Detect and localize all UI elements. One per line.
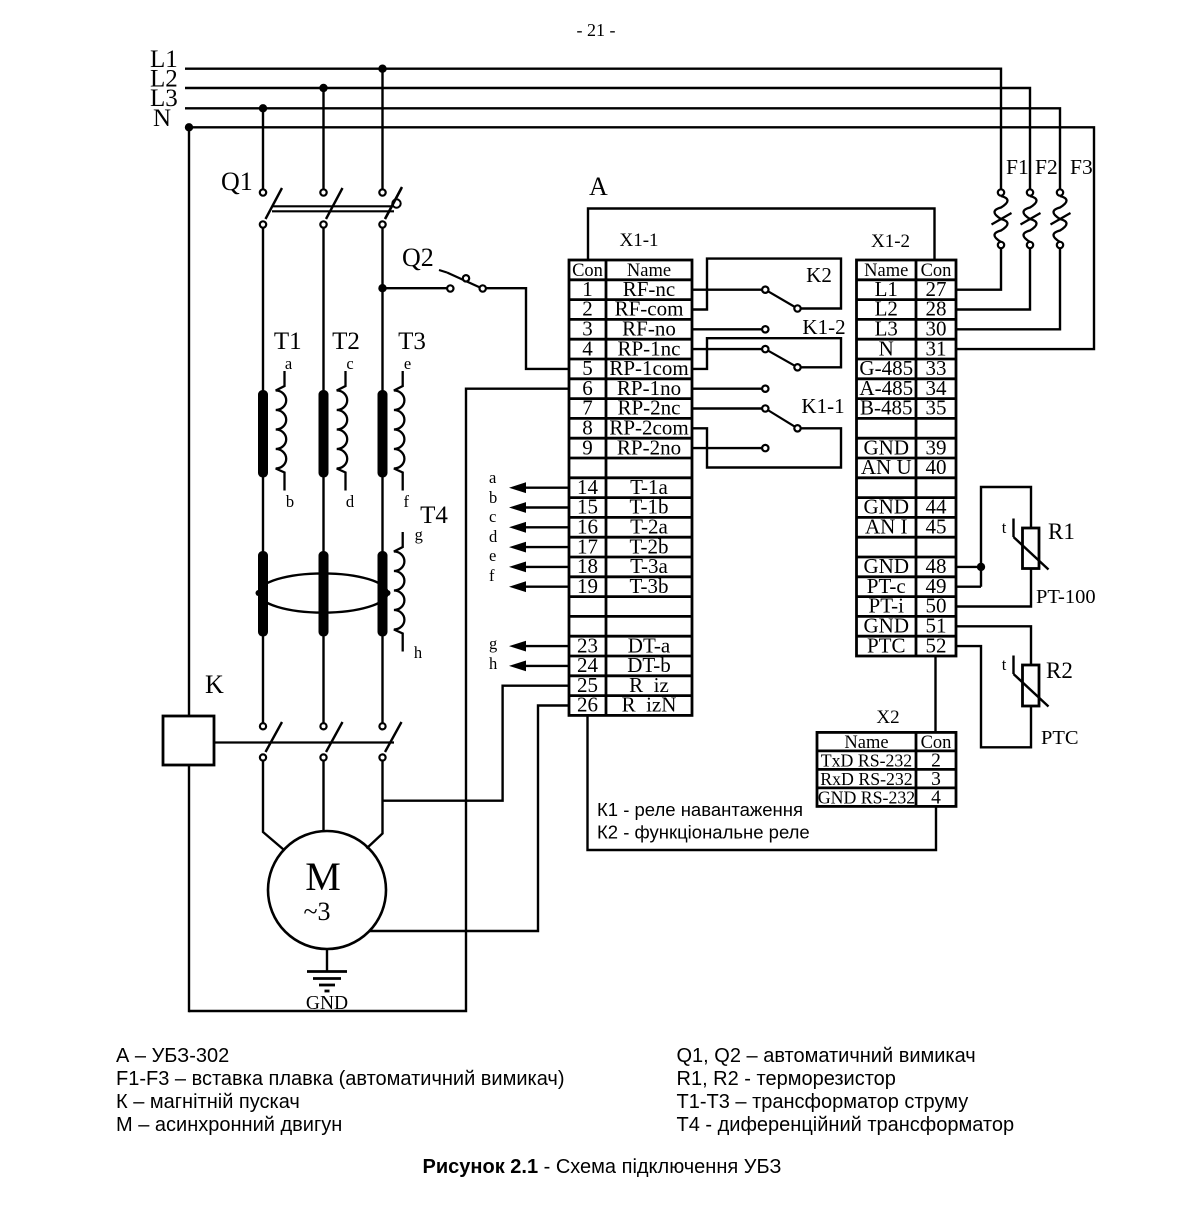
wire GND 51 to R2 top — [956, 626, 1031, 665]
svg-text:- 21 -: - 21 - — [577, 20, 616, 40]
transformer T3 primary bar — [378, 390, 388, 478]
device A outline top — [588, 209, 935, 261]
svg-text:K1-2: K1-2 — [802, 315, 845, 339]
wire N bottom run to RP-1no (pin 6) — [189, 389, 569, 1011]
arrow input e (pin row) — [524, 566, 569, 568]
junction L3 tap — [259, 104, 267, 112]
svg-text:X1-1: X1-1 — [619, 230, 658, 251]
svg-text:e: e — [404, 354, 411, 373]
svg-text:Рисунок 2.1 - Схема підключенн: Рисунок 2.1 - Схема підключення УБЗ — [423, 1156, 782, 1178]
wire F3 to terminal 30 — [956, 248, 1060, 329]
svg-text:t: t — [1002, 518, 1007, 537]
svg-text:~3: ~3 — [303, 897, 330, 926]
svg-text:T-3b: T-3b — [630, 574, 669, 598]
transformer T3 secondary coil — [394, 371, 405, 491]
wire pole3 drop — [381, 69, 383, 190]
svg-text:d: d — [346, 492, 355, 511]
svg-text:К2 - функціональне реле: К2 - функціональне реле — [597, 822, 810, 843]
arrow input f (pin row) — [524, 586, 569, 588]
transformer T2 primary bar — [319, 390, 329, 478]
svg-text:N: N — [153, 105, 171, 132]
junction L2 tap — [319, 84, 327, 92]
transformer T4 primary bars — [258, 551, 268, 637]
svg-text:52: 52 — [926, 633, 947, 657]
svg-text:Q2: Q2 — [402, 243, 434, 272]
fuse F3 — [1054, 196, 1067, 242]
svg-text:TxD RS-232: TxD RS-232 — [821, 750, 912, 770]
thermoresistor R2 — [1023, 665, 1040, 706]
svg-text:26: 26 — [577, 693, 598, 717]
transformer T4 core ellipse — [259, 573, 388, 612]
svg-text:a: a — [285, 354, 293, 373]
connector X1-2 table — [857, 260, 957, 656]
wire pin3 to K1-2 no contact — [692, 328, 762, 330]
svg-text:T1: T1 — [274, 328, 302, 355]
wire L3 rail — [185, 108, 1060, 190]
svg-text:f: f — [404, 492, 410, 511]
wire F2 to terminal 28 — [956, 248, 1030, 310]
relay contact K1-2 — [765, 349, 797, 367]
svg-text:K2: K2 — [806, 263, 832, 287]
contactor K coil box — [163, 716, 214, 765]
device A link X1-2 to X2 — [934, 656, 936, 732]
contactor K linkage — [214, 741, 394, 743]
wire pin4 to K1-2 fixed contact — [692, 348, 762, 350]
svg-text:h: h — [414, 643, 423, 662]
device A outline bottom — [588, 715, 937, 850]
wire pin1 to K2 fixed contact — [692, 289, 762, 291]
junction L1 tap — [378, 65, 386, 73]
wire pin8 to K1-1 common loop — [692, 428, 841, 467]
svg-text:b: b — [489, 488, 497, 507]
arrow input a (pin row) — [524, 487, 569, 489]
svg-text:19: 19 — [577, 574, 598, 598]
junction N drop — [185, 123, 193, 131]
svg-text:R1: R1 — [1048, 519, 1075, 544]
wire Q2 to RP-1com (pin 5) — [486, 288, 569, 369]
svg-text:35: 35 — [926, 396, 947, 420]
ground — [326, 949, 328, 972]
relay contact K1-1 — [765, 409, 797, 429]
relay contact K2 — [765, 290, 797, 309]
svg-text:K1-1: K1-1 — [801, 394, 844, 418]
svg-text:4: 4 — [931, 787, 941, 808]
svg-text:f: f — [489, 566, 495, 585]
transformer T4 secondary coil — [394, 532, 405, 652]
junction Q2 tap — [378, 284, 386, 292]
connector X2 table — [817, 732, 956, 806]
wire pole1 drop — [262, 108, 264, 190]
svg-text:X1-2: X1-2 — [871, 231, 910, 252]
svg-text:M: M — [305, 854, 341, 899]
wire N below coil — [188, 765, 190, 1012]
svg-text:Q1: Q1 — [221, 167, 253, 196]
wire R_izN net: motor to pin 26 — [369, 706, 569, 932]
arrow input c (pin row) — [524, 526, 569, 528]
fuse F2 — [1024, 196, 1037, 242]
wire Q1 outputs down through transformers — [262, 228, 264, 723]
transformer T2 secondary coil — [337, 371, 348, 491]
svg-text:F2: F2 — [1035, 155, 1058, 179]
arrow input d (pin row) — [524, 546, 569, 548]
wire F1 to terminal 27 — [956, 248, 1001, 290]
svg-text:RxD RS-232: RxD RS-232 — [820, 769, 912, 789]
svg-text:T4: T4 — [420, 502, 448, 529]
svg-text:R1, R2 - терморезистор: R1, R2 - терморезистор — [677, 1068, 896, 1090]
svg-text:R2: R2 — [1046, 658, 1073, 683]
svg-text:A: A — [589, 172, 608, 201]
wire pole2 drop — [322, 88, 324, 190]
wire L2 rail — [185, 88, 1030, 190]
breaker Q2 — [383, 287, 448, 289]
wire pin5 to K1-2 common loop — [692, 338, 841, 369]
svg-text:d: d — [489, 527, 498, 546]
svg-text:К1 - реле навантаження: К1 - реле навантаження — [597, 799, 803, 820]
wire pin9 open contact — [692, 447, 762, 449]
svg-text:Т4 - диференційний трансформат: Т4 - диференційний трансформатор — [677, 1114, 1015, 1136]
svg-text:T2: T2 — [332, 328, 360, 355]
svg-text:RP-2no: RP-2no — [617, 435, 681, 459]
wire R1 top loop — [981, 487, 1031, 587]
svg-text:М – асинхронний двигун: М – асинхронний двигун — [116, 1114, 342, 1136]
breaker Q1 — [266, 188, 283, 219]
wire pin6 to K1-1 no contact — [692, 388, 762, 390]
svg-text:AN U: AN U — [861, 455, 912, 479]
svg-text:Т1-Т3 – трансформатор струму: Т1-Т3 – трансформатор струму — [677, 1091, 969, 1113]
wire N left drop to contactor coil — [188, 127, 190, 717]
svg-text:g: g — [415, 525, 423, 544]
svg-text:F1-F3 – вставка плавка (автома: F1-F3 – вставка плавка (автоматичний вим… — [116, 1068, 564, 1090]
wire N rail to terminal 31 — [185, 127, 1094, 349]
connector X1-1 table — [569, 260, 692, 715]
wire GND 48 stub — [956, 566, 981, 568]
fuse F1 — [995, 196, 1008, 242]
svg-text:40: 40 — [926, 455, 947, 479]
wire R_iz net: pole3 to pin 25 — [383, 686, 570, 801]
wire pin7 to K1-1 fixed contact — [692, 407, 762, 409]
svg-text:К – магнітній пускач: К – магнітній пускач — [116, 1091, 300, 1113]
thermoresistor R1 — [1023, 528, 1040, 569]
wire K outputs to motor — [263, 761, 284, 850]
svg-text:F3: F3 — [1070, 155, 1093, 179]
svg-text:t: t — [1002, 655, 1007, 674]
wire R1 bottom to PT-i 50 — [956, 569, 1031, 607]
motor M — [268, 831, 386, 949]
transformer T1 secondary coil — [276, 371, 287, 491]
svg-text:А – УБЗ-302: А – УБЗ-302 — [116, 1045, 229, 1067]
wire R2 bottom loop to PTC 52 — [956, 646, 1031, 747]
svg-text:PTC: PTC — [1041, 727, 1079, 749]
svg-text:9: 9 — [582, 435, 593, 459]
svg-text:e: e — [489, 546, 496, 565]
svg-text:g: g — [489, 634, 497, 653]
arrow input g (pin row) — [524, 645, 569, 647]
svg-text:c: c — [346, 354, 353, 373]
arrow input h (pin row) — [524, 665, 569, 667]
svg-text:F1: F1 — [1006, 155, 1029, 179]
wire pin2 to K2 common loop — [692, 259, 841, 310]
svg-text:K: K — [205, 670, 224, 699]
svg-text:PTC: PTC — [867, 633, 906, 657]
svg-text:GND RS-232: GND RS-232 — [818, 787, 915, 807]
junction R1/GND — [977, 563, 985, 571]
arrow input b (pin row) — [524, 506, 569, 508]
wire PT-c 49 stub — [956, 586, 981, 588]
svg-text:PT-100: PT-100 — [1036, 586, 1096, 608]
svg-text:Q1, Q2 – автоматичний вимикач: Q1, Q2 – автоматичний вимикач — [677, 1045, 976, 1067]
svg-text:T3: T3 — [398, 328, 426, 355]
svg-text:AN I: AN I — [865, 515, 908, 539]
svg-text:R izN: R izN — [622, 693, 677, 717]
contactor K contacts — [266, 722, 283, 752]
wire L1 rail — [185, 69, 1001, 190]
svg-text:X2: X2 — [876, 707, 899, 728]
transformer T1 primary bar — [258, 390, 268, 478]
svg-text:h: h — [489, 654, 498, 673]
svg-text:B-485: B-485 — [860, 396, 913, 420]
svg-text:45: 45 — [926, 515, 947, 539]
svg-text:c: c — [489, 507, 496, 526]
svg-text:a: a — [489, 468, 497, 487]
svg-text:b: b — [286, 492, 294, 511]
